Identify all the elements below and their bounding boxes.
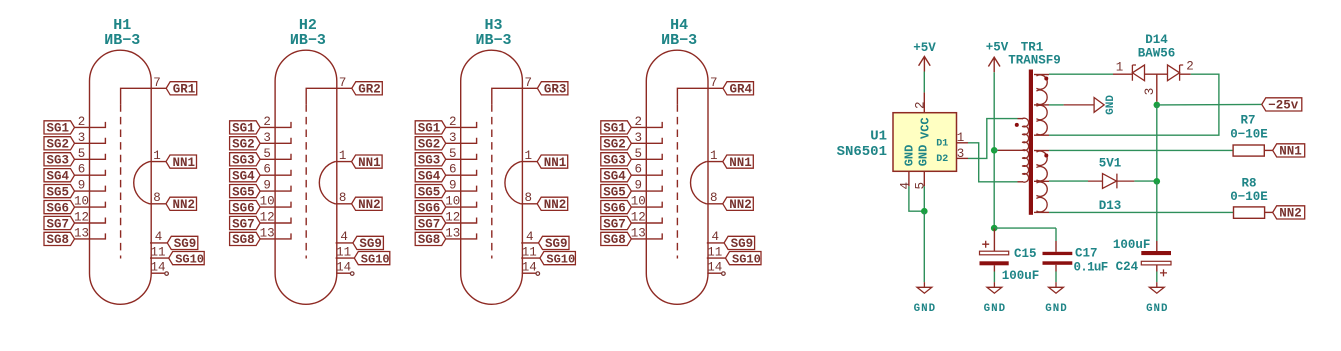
pin 6 segment electrode <box>260 170 291 176</box>
svg-text:SG4: SG4 <box>418 170 441 184</box>
label GR1 <box>166 82 197 95</box>
pin 13 segment electrode <box>75 233 106 239</box>
label GR2 <box>352 82 383 95</box>
svg-text:5: 5 <box>913 182 927 190</box>
label SG10 <box>726 252 762 265</box>
pin 8 filament lead <box>706 203 723 205</box>
svg-text:SG2: SG2 <box>232 138 255 152</box>
label NN1 <box>352 155 383 168</box>
pin 13 segment electrode <box>260 233 291 239</box>
svg-text:GND: GND <box>903 145 917 167</box>
svg-text:1: 1 <box>1116 61 1124 75</box>
svg-text:SG3: SG3 <box>603 154 626 168</box>
pin 6 segment electrode <box>631 170 662 176</box>
svg-text:SG10: SG10 <box>546 252 575 266</box>
wire C17 to GND <box>1055 272 1057 283</box>
label SG8 <box>44 232 75 245</box>
pin 13 segment electrode <box>446 233 477 239</box>
svg-text:SG5: SG5 <box>232 185 255 199</box>
svg-text:1: 1 <box>524 149 532 163</box>
svg-text:2: 2 <box>78 115 86 129</box>
svg-text:SG3: SG3 <box>232 154 255 168</box>
label NN2 <box>166 197 197 210</box>
pin 7 grid lead <box>677 88 723 104</box>
svg-text:13: 13 <box>445 226 460 240</box>
pin 1 filament lead <box>706 161 723 163</box>
filament arc <box>319 162 335 204</box>
svg-text:GR4: GR4 <box>730 83 753 97</box>
primary top lead <box>1018 118 1024 120</box>
svg-text:SG5: SG5 <box>47 185 70 199</box>
svg-text:SG4: SG4 <box>47 170 70 184</box>
svg-text:0−10E: 0−10E <box>1230 128 1268 142</box>
svg-text:11: 11 <box>707 245 722 259</box>
svg-text:TRANSF9: TRANSF9 <box>1008 54 1061 68</box>
pin 14 open end <box>165 272 169 276</box>
U1 pin 4 (GND) stub <box>908 171 910 186</box>
svg-text:SG1: SG1 <box>47 122 70 136</box>
svg-text:SG9: SG9 <box>174 237 197 251</box>
svg-text:2: 2 <box>449 115 457 129</box>
label SG7 <box>230 216 261 229</box>
secondary 2 bottom lead <box>1034 211 1049 213</box>
wire junction to GND <box>923 211 925 282</box>
svg-text:3: 3 <box>78 131 86 145</box>
C24 plus sign <box>1160 269 1167 276</box>
label NN2 <box>352 197 383 210</box>
svg-text:12: 12 <box>445 211 460 225</box>
svg-text:12: 12 <box>631 211 646 225</box>
svg-text:SG4: SG4 <box>232 170 255 184</box>
svg-text:SG6: SG6 <box>603 201 626 215</box>
pin 11 lead <box>150 257 169 259</box>
D13 diode symbol <box>1088 174 1134 189</box>
svg-text:NN1: NN1 <box>173 156 196 170</box>
svg-text:ИВ−3: ИВ−3 <box>290 32 326 49</box>
label SG2 <box>44 137 75 150</box>
pin 2 segment electrode <box>446 122 477 128</box>
label SG4 <box>601 169 632 182</box>
svg-text:SG9: SG9 <box>731 237 754 251</box>
svg-text:NN2: NN2 <box>1279 207 1302 221</box>
pin 3 segment electrode <box>631 138 662 144</box>
ground symbol (C15) <box>987 282 1002 293</box>
wire node down to D13 junction <box>1156 105 1158 181</box>
wire +5V rail down to C15 <box>993 72 995 228</box>
pin 11 lead <box>521 257 540 259</box>
label NN2 <box>1273 206 1305 219</box>
svg-text:12: 12 <box>74 211 89 225</box>
pin 14 open end <box>350 272 354 276</box>
svg-text:SN6501: SN6501 <box>837 144 887 160</box>
wire junction to C17 <box>994 227 1056 229</box>
label SG1 <box>601 121 632 134</box>
U1 pin 5 (GND) stub <box>923 171 925 186</box>
label SG2 <box>230 137 261 150</box>
pin 8 filament lead <box>150 203 167 205</box>
label SG4 <box>44 169 75 182</box>
svg-text:6: 6 <box>635 163 643 177</box>
pin 14 lead <box>336 272 350 274</box>
svg-text:9: 9 <box>78 179 86 193</box>
secondary 1 bottom lead <box>1034 134 1049 136</box>
tube H3 (IV-3 VFD) <box>415 17 575 304</box>
grid dashed electrode <box>676 104 678 258</box>
label SG4 <box>230 169 261 182</box>
svg-text:5: 5 <box>78 147 86 161</box>
svg-text:7: 7 <box>524 76 532 90</box>
tube body outline <box>90 50 152 304</box>
svg-text:GR2: GR2 <box>358 83 381 97</box>
label SG10 <box>354 252 390 265</box>
wire pin 1 to primary bottom <box>968 143 1018 182</box>
svg-text:13: 13 <box>260 226 275 240</box>
svg-text:SG10: SG10 <box>175 252 204 266</box>
svg-text:GND: GND <box>914 303 936 315</box>
svg-text:13: 13 <box>631 226 646 240</box>
label SG8 <box>415 232 446 245</box>
wire sec1 center tap to ground <box>1049 104 1064 106</box>
svg-text:NN2: NN2 <box>544 198 567 212</box>
pin 9 segment electrode <box>631 186 662 192</box>
filament arc <box>134 162 150 204</box>
primary polarity dot <box>1015 123 1019 127</box>
pin 7 grid lead <box>306 88 352 104</box>
pin 12 segment electrode <box>75 218 106 224</box>
pin 9 segment electrode <box>260 186 291 192</box>
pin 6 segment electrode <box>75 170 106 176</box>
svg-text:SG8: SG8 <box>603 233 626 247</box>
label NN1 <box>537 155 568 168</box>
svg-text:SG6: SG6 <box>232 201 255 215</box>
pin 8 filament lead <box>335 203 352 205</box>
junction U1 ground <box>921 208 928 215</box>
svg-text:D1: D1 <box>936 139 948 150</box>
svg-text:SG5: SG5 <box>603 185 626 199</box>
svg-text:14: 14 <box>336 261 351 275</box>
svg-text:1: 1 <box>153 149 161 163</box>
svg-text:2: 2 <box>635 115 643 129</box>
pin 7 grid lead <box>121 88 167 104</box>
wire pin 3 to primary top <box>968 119 1018 159</box>
secondary 2 winding <box>1036 151 1047 212</box>
wire C24 to GND <box>1156 272 1158 283</box>
pin 10 segment electrode <box>631 202 662 208</box>
svg-text:13: 13 <box>74 226 89 240</box>
wire node to -25v label <box>1157 103 1262 106</box>
C17 bottom plate <box>1043 261 1073 265</box>
svg-text:SG1: SG1 <box>232 122 255 136</box>
label SG9 <box>353 236 384 249</box>
svg-text:3: 3 <box>635 131 643 145</box>
C17 top plate <box>1043 252 1073 255</box>
label NN1 <box>1273 144 1305 157</box>
label NN1 <box>723 155 754 168</box>
svg-text:100uF: 100uF <box>1002 269 1040 283</box>
svg-text:7: 7 <box>153 76 161 90</box>
wire sec1 top to D14 <box>1049 73 1113 75</box>
svg-text:TR1: TR1 <box>1021 40 1044 54</box>
pin 2 segment electrode <box>75 122 106 128</box>
svg-text:5: 5 <box>635 147 643 161</box>
C24 top lead <box>1156 241 1158 251</box>
pin 5 segment electrode <box>260 154 291 160</box>
svg-text:NN1: NN1 <box>1279 145 1302 159</box>
svg-text:GR1: GR1 <box>173 83 196 97</box>
junction primary center tap <box>991 147 998 154</box>
secondary 2 top lead <box>1034 150 1049 152</box>
pin 3 segment electrode <box>260 138 291 144</box>
pin 4 lead <box>336 242 353 244</box>
R8 right lead <box>1265 211 1273 213</box>
svg-text:14: 14 <box>522 261 537 275</box>
tube body outline <box>461 50 523 304</box>
svg-text:100uF: 100uF <box>1113 238 1151 252</box>
svg-text:10: 10 <box>631 195 646 209</box>
C15 top lead <box>993 228 995 251</box>
wire +5V to pin 2 <box>923 72 925 93</box>
svg-text:11: 11 <box>336 245 351 259</box>
svg-text:BAW56: BAW56 <box>1138 46 1176 60</box>
pin 11 lead <box>336 257 355 259</box>
D14 diode 2 <box>1168 65 1191 81</box>
svg-text:D13: D13 <box>1099 199 1122 213</box>
pin 9 segment electrode <box>75 186 106 192</box>
svg-text:SG9: SG9 <box>359 237 382 251</box>
svg-text:SG2: SG2 <box>47 138 70 152</box>
svg-text:SG2: SG2 <box>418 138 441 152</box>
svg-text:1: 1 <box>339 149 347 163</box>
label SG5 <box>44 185 75 198</box>
ground symbol (C24) <box>1149 282 1164 293</box>
pin 5 segment electrode <box>446 154 477 160</box>
power +5V (U1) <box>919 57 931 72</box>
pin 3 segment electrode <box>446 138 477 144</box>
label SG5 <box>230 185 261 198</box>
label SG8 <box>601 232 632 245</box>
pin 12 segment electrode <box>260 218 291 224</box>
pin 10 segment electrode <box>260 202 291 208</box>
ground symbol (U1) <box>917 282 932 293</box>
svg-text:GND: GND <box>1146 303 1168 315</box>
svg-text:SG3: SG3 <box>418 154 441 168</box>
label SG6 <box>601 201 632 214</box>
svg-text:4: 4 <box>155 230 163 244</box>
C15 plus sign <box>982 241 989 248</box>
svg-text:SG1: SG1 <box>603 122 626 136</box>
wire sec2 bottom to R8 <box>1049 211 1234 213</box>
secondary 1 winding <box>1036 75 1047 135</box>
svg-text:10: 10 <box>74 195 89 209</box>
wire pin 5 down <box>923 186 925 211</box>
svg-text:SG9: SG9 <box>545 237 568 251</box>
label SG6 <box>230 201 261 214</box>
pin 4 lead <box>521 242 538 244</box>
label SG9 <box>539 236 570 249</box>
pin 14 open end <box>536 272 540 276</box>
pin 9 segment electrode <box>446 186 477 192</box>
pin 14 open end <box>722 272 726 276</box>
svg-text:GND: GND <box>917 145 931 167</box>
label SG7 <box>601 216 632 229</box>
tube body outline <box>646 50 708 304</box>
D14 diode 1 <box>1113 65 1168 81</box>
tube H2 (IV-3 VFD) <box>230 17 390 304</box>
svg-text:12: 12 <box>260 211 275 225</box>
pin 10 segment electrode <box>446 202 477 208</box>
svg-text:−25v: −25v <box>1268 99 1299 113</box>
svg-text:SG7: SG7 <box>232 217 255 231</box>
svg-text:NN2: NN2 <box>173 198 196 212</box>
label NN1 <box>166 155 197 168</box>
pin 12 segment electrode <box>631 218 662 224</box>
svg-text:1: 1 <box>957 131 965 145</box>
pin 6 segment electrode <box>446 170 477 176</box>
pin 1 filament lead <box>335 161 352 163</box>
wire pin 4 to junction <box>909 186 924 211</box>
svg-text:NN1: NN1 <box>729 156 752 170</box>
svg-text:3: 3 <box>263 131 271 145</box>
label SG10 <box>169 252 205 265</box>
svg-text:R8: R8 <box>1241 176 1256 190</box>
svg-text:SG7: SG7 <box>47 217 70 231</box>
label SG9 <box>724 236 755 249</box>
pin 3 segment electrode <box>75 138 106 144</box>
U1 pin 1 (D1) stub <box>957 142 969 144</box>
svg-text:GND: GND <box>1045 303 1067 315</box>
svg-text:D14: D14 <box>1145 33 1168 47</box>
svg-text:2: 2 <box>1186 60 1194 74</box>
svg-text:SG5: SG5 <box>418 185 441 199</box>
svg-text:SG3: SG3 <box>47 154 70 168</box>
svg-text:6: 6 <box>449 163 457 177</box>
label SG1 <box>415 121 446 134</box>
svg-text:SG8: SG8 <box>232 233 255 247</box>
secondary 1 polarity dot <box>1044 77 1048 81</box>
svg-text:SG1: SG1 <box>418 122 441 136</box>
label SG4 <box>415 169 446 182</box>
junction C15/C17 <box>991 225 998 232</box>
svg-text:SG10: SG10 <box>732 252 761 266</box>
D14 pin 3 lead down <box>1156 74 1158 102</box>
primary winding <box>1022 118 1029 182</box>
svg-text:10: 10 <box>445 195 460 209</box>
svg-text:U1: U1 <box>870 129 887 145</box>
C15 bottom lead <box>993 265 995 271</box>
junction D13 output <box>1154 178 1161 185</box>
ground symbol (C17) <box>1049 282 1064 293</box>
secondary 1 top lead <box>1034 74 1049 76</box>
wire center tap <box>994 149 998 151</box>
svg-text:3: 3 <box>1143 88 1157 96</box>
svg-text:R7: R7 <box>1240 114 1255 128</box>
svg-text:GND: GND <box>1105 95 1117 115</box>
svg-text:VCC: VCC <box>918 117 932 139</box>
svg-text:GR3: GR3 <box>544 83 567 97</box>
svg-text:2: 2 <box>263 115 271 129</box>
pin 10 segment electrode <box>75 202 106 208</box>
svg-text:NN2: NN2 <box>729 198 752 212</box>
label SG3 <box>601 153 632 166</box>
power +5V (transformer) <box>988 57 1000 72</box>
svg-text:C24: C24 <box>1116 260 1139 274</box>
pin 8 filament lead <box>521 203 538 205</box>
C15 negative plate <box>980 261 1009 265</box>
label SG3 <box>230 153 261 166</box>
svg-text:SG6: SG6 <box>418 201 441 215</box>
label SG1 <box>230 121 261 134</box>
pin 14 lead <box>522 272 536 274</box>
wire sec2 center tap to D13 <box>1049 180 1088 182</box>
svg-text:5V1: 5V1 <box>1099 157 1122 171</box>
svg-text:NN1: NN1 <box>544 156 567 170</box>
wire junction to C24 <box>1156 181 1158 241</box>
svg-text:7: 7 <box>710 76 718 90</box>
R7 right lead <box>1264 149 1272 151</box>
svg-text:6: 6 <box>78 163 86 177</box>
pin 1 filament lead <box>521 161 538 163</box>
grid dashed electrode <box>120 104 122 258</box>
svg-text:+5V: +5V <box>986 40 1009 54</box>
wire sec2 top to R7 <box>1049 149 1233 151</box>
C24 bottom lead <box>1156 265 1158 272</box>
label GR3 <box>537 82 568 95</box>
svg-text:C15: C15 <box>1014 247 1037 261</box>
svg-text:8: 8 <box>153 191 161 205</box>
svg-text:9: 9 <box>635 179 643 193</box>
label SG7 <box>415 216 446 229</box>
svg-text:SG7: SG7 <box>603 217 626 231</box>
filament arc <box>691 162 707 204</box>
label SG3 <box>44 153 75 166</box>
tube H1 (IV-3 VFD) <box>44 17 204 304</box>
label -25v <box>1262 98 1302 111</box>
junction -25v node <box>1154 102 1161 109</box>
C24 top plate <box>1141 251 1171 255</box>
svg-text:6: 6 <box>263 163 271 177</box>
label NN2 <box>537 197 568 210</box>
label SG2 <box>601 137 632 150</box>
label SG9 <box>167 236 198 249</box>
primary center tap lead <box>998 149 1023 151</box>
svg-text:4: 4 <box>899 182 913 190</box>
pin 4 lead <box>707 242 724 244</box>
label SG5 <box>415 185 446 198</box>
label NN2 <box>723 197 754 210</box>
svg-text:0.1uF: 0.1uF <box>1074 261 1108 275</box>
secondary 2 center tap lead <box>1034 180 1049 182</box>
svg-text:4: 4 <box>526 230 534 244</box>
C15 positive plate (hollow) <box>980 251 1009 255</box>
svg-text:SG10: SG10 <box>361 252 390 266</box>
svg-text:3: 3 <box>957 147 965 161</box>
svg-text:9: 9 <box>449 179 457 193</box>
svg-text:0−10E: 0−10E <box>1230 190 1268 204</box>
svg-text:10: 10 <box>260 195 275 209</box>
wire D14 pin2 loop to sec1 bottom <box>1049 74 1219 135</box>
pin 14 lead <box>151 272 165 274</box>
label SG6 <box>415 201 446 214</box>
svg-text:SG2: SG2 <box>603 138 626 152</box>
svg-text:+5V: +5V <box>913 41 936 55</box>
label GR4 <box>723 82 754 95</box>
svg-text:9: 9 <box>263 179 271 193</box>
pin 12 segment electrode <box>446 218 477 224</box>
svg-text:11: 11 <box>150 245 165 259</box>
svg-text:4: 4 <box>712 230 720 244</box>
label SG7 <box>44 216 75 229</box>
pin 5 segment electrode <box>75 154 106 160</box>
